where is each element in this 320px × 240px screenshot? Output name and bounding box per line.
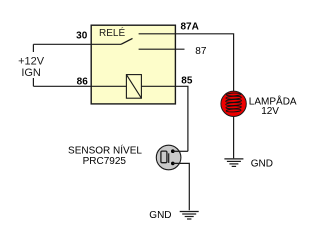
lamp LP1 bbox=[221, 91, 246, 116]
wire pin85 to corner bbox=[141, 86, 188, 151]
wire lamp to ground bbox=[233, 116, 235, 158]
label LAMPÅDA 12V bbox=[249, 95, 297, 118]
svg-text:RELÉ: RELÉ bbox=[99, 26, 125, 39]
svg-text:12V: 12V bbox=[261, 106, 279, 117]
svg-text:IGN: IGN bbox=[21, 67, 41, 79]
wire sensor top lead bbox=[173, 150, 188, 152]
ground GND2 (sensor) bbox=[180, 212, 199, 220]
label SENSOR NÍVEL PRC7925 bbox=[68, 143, 142, 166]
svg-text:GND: GND bbox=[251, 159, 273, 170]
svg-text:SENSOR NÍVEL: SENSOR NÍVEL bbox=[68, 143, 142, 156]
svg-text:30: 30 bbox=[76, 31, 88, 42]
svg-text:+12V: +12V bbox=[18, 55, 45, 67]
svg-text:PRC7925: PRC7925 bbox=[83, 156, 127, 167]
sensor B1 body bbox=[156, 145, 181, 170]
svg-text:GND: GND bbox=[149, 210, 171, 221]
svg-text:87A: 87A bbox=[181, 22, 199, 33]
wire contact 87 stub bbox=[139, 48, 185, 50]
wire +12V rail vertical bbox=[32, 44, 34, 86]
wire contact 87A bbox=[139, 34, 234, 91]
relay K1 body bbox=[91, 25, 175, 104]
svg-text:86: 86 bbox=[77, 77, 89, 88]
node +12V IGN label bbox=[16, 52, 46, 79]
switch arm SW inside relay bbox=[121, 38, 133, 44]
wire pin86 horizontal bbox=[33, 85, 126, 87]
wire pin30 horizontal bbox=[33, 43, 121, 45]
ground GND1 (lamp) bbox=[224, 159, 243, 167]
svg-text:87: 87 bbox=[195, 46, 207, 57]
relay coil L1 bbox=[126, 75, 141, 99]
svg-text:85: 85 bbox=[181, 75, 193, 86]
wire sensor bottom lead to ground bbox=[173, 163, 189, 210]
